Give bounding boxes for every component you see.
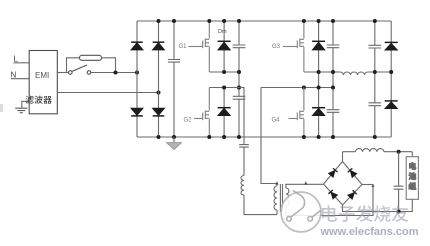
diode D4	[153, 108, 165, 116]
junction C5 mid	[331, 70, 335, 74]
wire bottom rail	[137, 136, 391, 138]
capacitor C7 plates	[369, 45, 382, 48]
diode D13	[328, 190, 337, 199]
svg-text:EMI: EMI	[35, 71, 49, 80]
capacitor C5 column	[332, 21, 334, 137]
junction railB D8	[317, 86, 321, 90]
junction D5 mid	[222, 70, 226, 74]
junction D9 mid	[389, 70, 393, 74]
switch S1	[69, 65, 91, 74]
wire diamond top lead	[342, 152, 344, 162]
junction fuse-switch	[114, 71, 118, 75]
junction Q1 drain	[207, 19, 211, 23]
svg-text:G2: G2	[184, 117, 193, 123]
capacitor C2 plates	[233, 45, 246, 48]
battery box BT1	[406, 157, 418, 200]
junction C1 top	[172, 19, 176, 23]
capacitor C6 plates	[327, 110, 340, 113]
label G4	[272, 117, 281, 123]
wire L1 to transformer	[244, 195, 277, 215]
junction D6 top	[222, 86, 226, 90]
wire mid rail B with inductor L2	[304, 72, 391, 75]
junction C7 mid	[373, 70, 377, 74]
transformer T1 primary	[274, 186, 277, 215]
junction L3 C9	[397, 150, 401, 154]
wire rail B right	[261, 87, 333, 89]
junction C9 bottom	[397, 210, 401, 214]
junction bridge left mid	[135, 71, 139, 75]
junction Q3 drain	[302, 19, 306, 23]
junction bridge right mid	[157, 91, 161, 95]
junction railB C6	[331, 86, 335, 90]
diode D1	[131, 42, 143, 50]
diode D6 column	[223, 88, 225, 138]
wire EMI to earth	[22, 101, 29, 108]
transformer T1 secondary	[286, 188, 289, 206]
junction C7 bottom	[373, 135, 377, 139]
diode D8	[312, 108, 325, 116]
diode D5 Dm column	[223, 21, 225, 72]
label G3	[272, 44, 281, 50]
wire fuse branch left	[67, 58, 80, 73]
svg-text:N: N	[11, 71, 17, 80]
junction C6 bottom	[331, 135, 335, 139]
output bridge diamond	[324, 162, 363, 206]
earth ground	[15, 108, 27, 113]
svg-text:G4: G4	[272, 117, 281, 123]
capacitor C4 coupling	[239, 145, 249, 176]
watermark logo detail	[287, 191, 321, 222]
transformer T1 core	[280, 184, 282, 212]
junction D7 top	[317, 19, 321, 23]
junction C7 top	[373, 19, 377, 23]
diode D10	[385, 101, 398, 109]
wire battery negative	[343, 199, 413, 211]
wire switch to bridge	[91, 72, 137, 74]
junction Q2 source	[207, 135, 211, 139]
svg-text:Dm: Dm	[218, 29, 227, 35]
diode D14	[348, 190, 357, 199]
label G2	[184, 117, 193, 123]
junction Q4 source	[302, 135, 306, 139]
svg-text:www.elecfans.com: www.elecfans.com	[320, 226, 419, 238]
junction right leg bottom	[157, 135, 161, 139]
arrow tick primary	[275, 181, 278, 184]
junction D7 mid	[317, 70, 321, 74]
junction C2 railB	[237, 86, 241, 90]
capacitor C2 column	[238, 21, 240, 137]
capacitor C3 plates	[233, 96, 246, 99]
transistor Q2 G2	[194, 88, 209, 138]
wire fuse branch right	[102, 58, 116, 73]
node L terminal	[14, 62, 30, 64]
capacitor C5 plates	[327, 45, 340, 48]
wire T1 primary top lead	[261, 88, 277, 187]
chassis ground	[167, 137, 182, 150]
arrow tick AC2	[372, 184, 375, 187]
label G1	[179, 44, 188, 50]
transistor Q3 G3	[283, 21, 304, 72]
junction C2 top	[237, 19, 241, 23]
diode D7	[312, 41, 325, 50]
EMI filter box U1	[29, 51, 57, 114]
diode D9 column	[390, 21, 392, 137]
wire EMI top output	[57, 72, 68, 74]
transistor Q1 G1	[189, 21, 210, 72]
diode D5 Dm	[218, 41, 231, 50]
wire bridge left leg	[136, 21, 138, 137]
svg-text:L: L	[14, 55, 19, 64]
junction C2 bottom	[237, 135, 241, 139]
transistor Q4 G4	[289, 88, 304, 138]
label battery	[409, 163, 416, 190]
junction D6 bottom	[222, 135, 226, 139]
diode D3	[131, 108, 143, 116]
junction railB Q4	[302, 86, 306, 90]
arrow tick secondary	[304, 181, 307, 184]
wire EMI bottom output	[57, 92, 158, 94]
junction C2 mid	[237, 70, 241, 74]
fuse F1	[80, 55, 102, 60]
label Dm	[218, 29, 227, 35]
watermark logo circle	[281, 192, 321, 232]
diode D12	[348, 168, 357, 177]
capacitor C1 bus	[168, 21, 180, 137]
diode D7 column	[318, 21, 320, 137]
label filter	[26, 96, 52, 104]
inductor L3 output	[343, 149, 413, 152]
capacitor C8 plates	[369, 103, 382, 106]
wire top rail	[137, 20, 391, 22]
svg-text:G1: G1	[179, 44, 188, 50]
diode D9	[385, 42, 398, 50]
inductor L1 series	[241, 176, 244, 196]
junction D8 bottom	[317, 135, 321, 139]
diode D2	[153, 42, 165, 50]
wire T1 secondary top lead	[286, 184, 324, 188]
junction D5 top	[222, 19, 226, 23]
capacitor C9 output	[394, 152, 404, 212]
wire mid rail A	[209, 71, 239, 73]
svg-text:G3: G3	[272, 44, 281, 50]
wire battery positive	[411, 152, 413, 157]
edge smudge	[0, 104, 3, 112]
junction C1 bottom	[172, 135, 176, 139]
junction C5 top	[331, 19, 335, 23]
node N terminal	[11, 78, 29, 80]
wire bridge right leg	[158, 21, 160, 137]
junction right leg top	[157, 19, 161, 23]
capacitor C7 column	[374, 21, 376, 137]
wire diamond right lead	[362, 184, 373, 186]
wire T1 secondary bottom lead	[286, 185, 373, 216]
watermark text chinese	[322, 205, 408, 222]
diode D6	[218, 108, 231, 116]
wire rail B left	[209, 88, 244, 145]
diode D11	[329, 168, 338, 177]
